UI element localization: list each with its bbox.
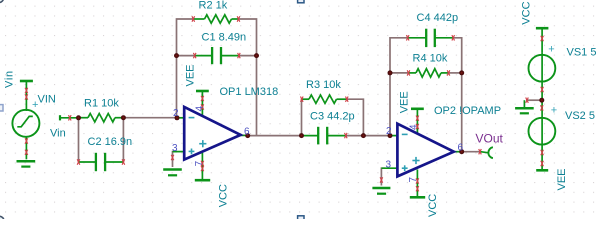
svg-text:C4 442p: C4 442p xyxy=(417,12,459,24)
svg-text:C3 44.2p: C3 44.2p xyxy=(310,111,355,123)
wire OP2 pin3 to ground xyxy=(381,168,385,185)
svg-text:4: 4 xyxy=(194,106,205,112)
svg-text:OP1 LM318: OP1 LM318 xyxy=(220,86,279,98)
svg-text:3: 3 xyxy=(172,143,178,154)
svg-text:4: 4 xyxy=(409,124,420,130)
wire OP1 feedback right vertical (R2/C1 right to output node) xyxy=(239,19,257,136)
svg-text:R1 10k: R1 10k xyxy=(84,98,119,110)
resistor R4 xyxy=(409,69,449,77)
red connection marks xyxy=(25,16,543,191)
svg-text:VIN: VIN xyxy=(38,94,56,106)
svg-text:6: 6 xyxy=(244,126,250,137)
wire C1 left lead connection xyxy=(177,55,195,57)
capacitor C4 xyxy=(408,29,454,47)
net label pin Vin (stub near R1) xyxy=(60,115,79,120)
wire R3 left vertical riser xyxy=(301,99,303,136)
output terminal VOut xyxy=(481,147,493,158)
wire OP1 feedback left vertical (node pin2 to R2/C1 left) xyxy=(177,19,194,118)
svg-text:Vin: Vin xyxy=(4,70,16,88)
ground at OP2 pin3 xyxy=(372,188,390,194)
svg-text:C2 16.9n: C2 16.9n xyxy=(88,136,133,148)
svg-text:+: + xyxy=(548,43,554,55)
wire R4 right lead connection xyxy=(449,72,462,74)
capacitor C3 xyxy=(302,127,346,145)
wire OP2 output to VOut terminal xyxy=(462,151,481,153)
power terminal VEE bottom right xyxy=(536,169,548,172)
wire R1 right node to OP1 pin2 node xyxy=(123,117,177,119)
svg-text:2: 2 xyxy=(173,108,179,119)
svg-text:VEE: VEE xyxy=(185,64,197,86)
wire OP1 pin3 to ground xyxy=(173,152,178,167)
svg-text:VCC: VCC xyxy=(521,1,533,24)
ground spur at supply midpoint xyxy=(515,100,534,113)
power terminal VEE above OP2 (pin 4) xyxy=(411,108,424,111)
capacitor C1 xyxy=(195,47,239,64)
wire C1 right lead connection xyxy=(239,55,257,57)
svg-text:7: 7 xyxy=(408,177,419,183)
svg-text:VOut: VOut xyxy=(476,131,504,145)
resistor R2 xyxy=(193,15,238,23)
svg-text:VEE: VEE xyxy=(399,91,411,113)
svg-text:+: + xyxy=(551,105,557,117)
wire R3 right end down to C3 right node xyxy=(347,99,364,135)
ground at OP1 pin3 xyxy=(163,170,182,176)
svg-text:OP2 !OPAMP: OP2 !OPAMP xyxy=(434,105,501,117)
svg-text:VCC: VCC xyxy=(427,194,439,217)
selection handle square top-middle xyxy=(298,0,304,3)
wire OP2 feedback left vertical xyxy=(390,38,408,136)
svg-text:R4 10k: R4 10k xyxy=(413,52,448,64)
selection handle square bottom-middle xyxy=(298,216,304,222)
wire OP2 feedback right vertical (C4/R4 right to output node) xyxy=(453,38,462,152)
svg-text:Vin: Vin xyxy=(50,127,66,139)
ground below VIN xyxy=(17,161,36,166)
resistor R1 xyxy=(79,114,124,122)
selection handle circle top-left corner xyxy=(0,0,4,3)
op-amp U1 OP1 triangle xyxy=(173,92,248,180)
voltage source VS2 xyxy=(529,100,556,170)
svg-text:R3 10k: R3 10k xyxy=(306,79,341,91)
voltage source VS1 xyxy=(529,53,556,101)
power terminal VCC below OP2 (pin 7) xyxy=(410,196,425,199)
svg-text:7: 7 xyxy=(194,160,205,166)
power terminal VEE above OP1 (pin 4) xyxy=(196,90,209,93)
svg-text:6: 6 xyxy=(458,142,464,153)
svg-text:VS2 5: VS2 5 xyxy=(565,110,595,122)
svg-text:2: 2 xyxy=(386,126,392,137)
svg-text:3: 3 xyxy=(386,159,392,170)
voltage source VIN xyxy=(12,81,39,159)
node junction dots xyxy=(76,53,544,154)
power terminal VCC below OP1 (pin 7) xyxy=(195,179,210,182)
svg-text:C1 8.49n: C1 8.49n xyxy=(202,32,247,44)
wire supply mid node to ground spur xyxy=(526,99,542,101)
svg-text:+: + xyxy=(32,99,38,111)
op-amp U2 OP2 triangle xyxy=(381,109,461,197)
svg-text:VS1 5: VS1 5 xyxy=(567,46,597,58)
power terminal VCC top right xyxy=(536,28,549,52)
node junction red centers xyxy=(78,55,543,153)
wire R4 left lead connection xyxy=(390,72,409,74)
selection handle circle bottom-left corner xyxy=(0,216,4,226)
selection handle square left-middle xyxy=(0,105,3,111)
wire C3 right lead connection xyxy=(346,135,364,137)
svg-text:VEE: VEE xyxy=(556,168,568,190)
svg-text:R2 1k: R2 1k xyxy=(199,0,228,12)
capacitor C2 xyxy=(79,118,124,172)
resistor R3 xyxy=(302,95,347,103)
svg-text:VCC: VCC xyxy=(218,184,230,207)
wire node to OP2 pin2 xyxy=(363,135,391,137)
wire OP1 output to R3/C3 left node xyxy=(248,135,302,137)
